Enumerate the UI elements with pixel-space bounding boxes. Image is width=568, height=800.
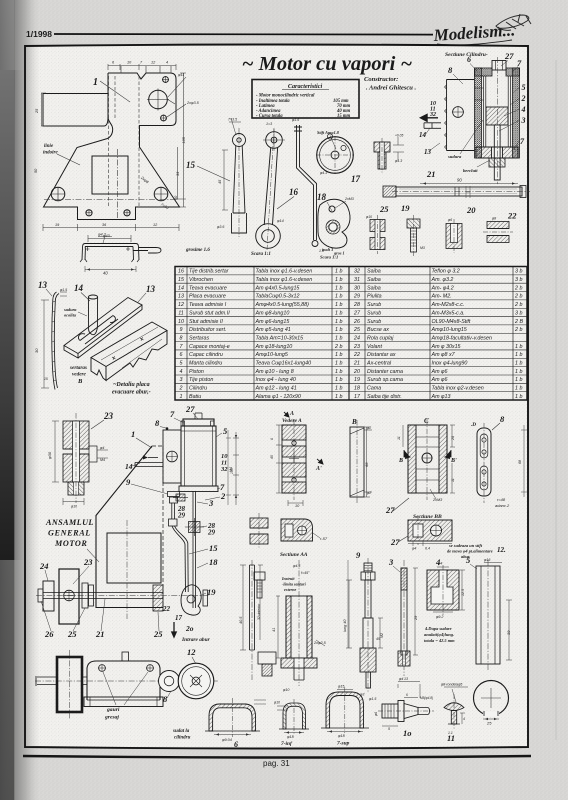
- svg-text:Distantar ax: Distantar ax: [367, 352, 396, 358]
- cap 27: [492, 61, 506, 71]
- svg-text:Tabla Am=10-30x15: Tabla Am=10-30x15: [256, 335, 304, 341]
- svg-text:13: 13: [38, 280, 48, 290]
- svg-text:29: 29: [177, 512, 186, 520]
- svg-text:+0.05: +0.05: [395, 134, 404, 138]
- valve handwheel part 12: [178, 663, 214, 699]
- svg-text:Am φ 30x15: Am φ 30x15: [431, 344, 461, 350]
- svg-text:25: 25: [153, 629, 163, 639]
- svg-text:1 b: 1 b: [335, 302, 342, 308]
- svg-text:Am φ6: Am φ6: [431, 369, 448, 375]
- middle column dim chain: [233, 432, 239, 505]
- svg-text:externe: externe: [284, 587, 296, 592]
- intrare abur arrow: [172, 622, 176, 637]
- svg-text:40: 40: [103, 271, 108, 276]
- svg-text:Am φ10 - lung 8: Am φ10 - lung 8: [255, 369, 294, 375]
- svg-text:adanc.2: adanc.2: [495, 503, 510, 508]
- svg-text:Amφ10-lung15: Amφ10-lung15: [431, 327, 467, 333]
- part 11 rivet: [444, 694, 464, 730]
- B section arrows on C: [404, 450, 410, 459]
- base flange: [84, 697, 163, 707]
- axle end bolt: [38, 589, 43, 602]
- svg-text:5: 5: [180, 360, 183, 366]
- svg-text:22: 22: [353, 352, 360, 358]
- svg-text:11: 11: [178, 310, 184, 316]
- svg-text:1 b: 1 b: [335, 285, 342, 291]
- bottom flange: [476, 147, 492, 158]
- isometric evacuation plate detail: [64, 295, 142, 358]
- svg-text:1 b: 1 b: [335, 377, 342, 383]
- svg-text:evacuare abur,-: evacuare abur,-: [112, 390, 151, 396]
- svg-text:8: 8: [180, 335, 183, 341]
- svg-text:totala = 42.5 mm: totala = 42.5 mm: [424, 638, 455, 643]
- svg-text:de teava φ4 pt.alimentare: de teava φ4 pt.alimentare: [447, 549, 493, 554]
- center line: [496, 57, 498, 184]
- svg-text:φ30: φ30: [47, 451, 52, 459]
- svg-text:23: 23: [83, 557, 93, 567]
- middle column screw: [254, 572, 265, 598]
- caracteristici spec box: [252, 80, 359, 120]
- svg-text:19: 19: [207, 587, 216, 597]
- svg-text:1 b: 1 b: [335, 360, 342, 366]
- svg-text:2xM3: 2xM3: [432, 498, 443, 502]
- svg-text:11: 11: [451, 478, 455, 482]
- svg-text:4.Dupa sudare: 4.Dupa sudare: [424, 626, 452, 631]
- svg-text:45: 45: [376, 637, 380, 641]
- svg-text:Sectiune BB: Sectiune BB: [413, 514, 442, 520]
- svg-text:1 b: 1 b: [335, 369, 342, 375]
- bottom rule: [23, 756, 531, 758]
- svg-text:11: 11: [397, 436, 401, 440]
- svg-text:15: 15: [178, 277, 184, 283]
- left scan shadow: [0, 0, 15, 800]
- svg-text:Vibrochen: Vibrochen: [189, 277, 213, 283]
- airplane doodle: [437, 40, 512, 45]
- svg-text:68: 68: [364, 462, 369, 467]
- bucse flanged bushing: [374, 138, 390, 173]
- parts table: [175, 267, 527, 401]
- svg-text:Tabla inox φ1.6-v.desen: Tabla inox φ1.6-v.desen: [256, 277, 313, 283]
- svg-text:Scara 1:1: Scara 1:1: [251, 252, 271, 257]
- steam chest front: [163, 430, 181, 483]
- svg-text:Batiu: Batiu: [189, 394, 201, 400]
- svg-text:19: 19: [401, 203, 410, 213]
- svg-text:Piulita: Piulita: [367, 294, 382, 300]
- svg-text:Inox φ4 - lung 40: Inox φ4 - lung 40: [256, 377, 296, 383]
- svg-text:sudat la: sudat la: [172, 729, 190, 734]
- svg-text:φ4: φ4: [438, 562, 442, 566]
- svg-text:φ2: φ2: [367, 426, 371, 430]
- svg-text:41: 41: [272, 628, 276, 632]
- svg-text:1: 1: [93, 77, 98, 88]
- svg-text:φ11: φ11: [178, 73, 184, 77]
- svg-text:3: 3: [180, 377, 183, 383]
- svg-text:18: 18: [209, 557, 218, 567]
- svg-text:15: 15: [44, 377, 48, 381]
- svg-text:29: 29: [353, 294, 360, 300]
- svg-text:26: 26: [353, 319, 360, 325]
- svg-text:21: 21: [426, 169, 436, 179]
- svg-text:cilindru: cilindru: [174, 736, 191, 741]
- svg-text:26: 26: [44, 629, 54, 639]
- svg-text:30: 30: [354, 285, 360, 291]
- svg-text:bercluit: bercluit: [463, 168, 478, 173]
- svg-text:1 b: 1 b: [335, 269, 342, 275]
- svg-text:19: 19: [354, 377, 360, 383]
- svg-text:1: 1: [131, 429, 135, 439]
- svg-text:~ Motor cu vapori ~: ~ Motor cu vapori ~: [242, 53, 413, 75]
- svg-text:C: C: [424, 417, 429, 425]
- svg-text:40.5: 40.5: [239, 616, 243, 624]
- svg-text:MOTOR: MOTOR: [54, 539, 87, 548]
- svg-text:φ8-rondelaφ5: φ8-rondelaφ5: [441, 683, 462, 687]
- cam blank circle: [474, 681, 509, 717]
- svg-text:105: 105: [182, 136, 186, 143]
- svg-text:29: 29: [207, 529, 216, 537]
- svg-text:32: 32: [220, 466, 228, 473]
- svg-text:φ4: φ4: [412, 547, 416, 551]
- svg-text:φ4: φ4: [100, 446, 104, 450]
- svg-text:φ4.3: φ4.3: [395, 159, 402, 163]
- svg-text:13: 13: [424, 148, 432, 156]
- svg-text:M4: M4: [100, 458, 105, 462]
- svg-text:32: 32: [354, 269, 360, 275]
- svg-text:10: 10: [178, 319, 184, 325]
- svg-text:lung 40: lung 40: [343, 619, 347, 632]
- right bearing block: [153, 585, 163, 611]
- svg-text:90: 90: [457, 178, 462, 183]
- svg-text:17: 17: [354, 394, 361, 400]
- inlet tube assembly: [135, 463, 163, 467]
- svg-text:32=interior: 32=interior: [257, 603, 261, 620]
- svg-text:vedere: vedere: [72, 372, 87, 378]
- svg-text:Stift Amφ1.8: Stift Amφ1.8: [317, 130, 340, 135]
- svg-text:se sudeaza un stift: se sudeaza un stift: [448, 543, 483, 548]
- svg-text:Stut admisie II: Stut admisie II: [189, 319, 223, 325]
- wheel part 17: [316, 134, 354, 174]
- svg-text:22: 22: [507, 211, 517, 221]
- svg-text:B: B: [351, 418, 357, 426]
- svg-text:2xφ3.5: 2xφ3.5: [186, 101, 200, 105]
- svg-text:Teava admisie I: Teava admisie I: [189, 302, 227, 308]
- svg-text:A: A: [289, 411, 294, 417]
- lower bolt cluster: [189, 522, 201, 533]
- svg-text:φ14: φ14: [277, 219, 284, 223]
- part 1 fold lines: [44, 66, 178, 219]
- svg-text:Am- φ4.2: Am- φ4.2: [431, 285, 454, 291]
- svg-text:3 b: 3 b: [515, 277, 522, 283]
- svg-text:1 b: 1 b: [335, 294, 342, 300]
- svg-text:3: 3: [208, 498, 214, 508]
- svg-text:Teava evacuare: Teava evacuare: [189, 285, 227, 291]
- svg-text:15: 15: [186, 160, 196, 170]
- svg-text:Caracteristici: Caracteristici: [288, 83, 323, 90]
- svg-text:1 b: 1 b: [515, 344, 522, 350]
- svg-text:Instruit: Instruit: [281, 576, 295, 581]
- svg-text:68: 68: [518, 460, 522, 464]
- svg-text:2: 2: [220, 491, 226, 501]
- svg-text:2 b: 2 b: [514, 285, 522, 291]
- svg-text:6: 6: [234, 740, 238, 749]
- svg-text:M3: M3: [420, 246, 425, 250]
- svg-text:9: 9: [180, 327, 183, 333]
- flywheel side (thick rim): [57, 657, 82, 712]
- svg-text:17: 17: [351, 174, 361, 184]
- svg-text:2 b: 2 b: [514, 327, 522, 333]
- svg-text:27: 27: [390, 537, 400, 547]
- svg-text:Rola cuplaj: Rola cuplaj: [367, 335, 394, 341]
- svg-text:- Motor monocilindric vertical: - Motor monocilindric vertical: [256, 94, 315, 99]
- svg-text:27: 27: [185, 404, 195, 414]
- washers right: [203, 590, 208, 606]
- svg-text:Am φ5-lung 41: Am φ5-lung 41: [255, 327, 291, 333]
- svg-text:Vedere A: Vedere A: [282, 418, 302, 424]
- sectiune AA drawing: [281, 519, 313, 541]
- upper bolt cluster: [176, 494, 185, 501]
- svg-text:gresaj: gresaj: [104, 715, 119, 721]
- svg-text:Tabla inox φ2-v.desen: Tabla inox φ2-v.desen: [432, 386, 484, 392]
- svg-text:M5(φ4.8): M5(φ4.8): [420, 696, 433, 700]
- svg-text:24: 24: [353, 335, 360, 341]
- right margin faint page edge: [555, 60, 557, 740]
- svg-text:φ1.5: φ1.5: [60, 288, 67, 292]
- svg-text:φ18: φ18: [338, 734, 346, 738]
- svg-text:2 b: 2 b: [334, 344, 342, 350]
- svg-text:φ6: φ6: [448, 218, 452, 222]
- svg-text:B': B': [450, 458, 457, 464]
- svg-text:14: 14: [125, 462, 133, 471]
- svg-text:20: 20: [451, 436, 455, 441]
- svg-text:3: 3: [521, 116, 526, 125]
- svg-text:6.4: 6.4: [425, 547, 430, 551]
- svg-text:φ15: φ15: [338, 685, 344, 689]
- svg-text:Capac cilindru: Capac cilindru: [189, 352, 223, 358]
- small wheel on valve shaft: [159, 671, 180, 692]
- svg-text:Teflon φ 3.2: Teflon φ 3.2: [432, 269, 460, 275]
- svg-text:ocolita: ocolita: [64, 313, 77, 318]
- svg-text:Am. φ3.2: Am. φ3.2: [431, 277, 454, 283]
- svg-text:Capace montaj-e: Capace montaj-e: [189, 344, 230, 350]
- svg-text:6: 6: [180, 352, 183, 358]
- svg-text:13: 13: [178, 294, 184, 300]
- svg-text:B: B: [77, 378, 83, 385]
- svg-text:Surub sp.cama: Surub sp.cama: [367, 377, 403, 383]
- conrod part 15: [232, 128, 247, 237]
- part 23 flywheel hub section detail: [63, 413, 97, 503]
- svg-text:anulati(φ4)lung.: anulati(φ4)lung.: [424, 632, 454, 637]
- knurled outer shell: [475, 68, 482, 158]
- crank disc: [43, 581, 54, 611]
- general assembly: cylinder cap: [36, 413, 218, 624]
- bent staple bracket: [80, 244, 161, 263]
- gland under cylinder: [168, 492, 180, 497]
- svg-text:r=48: r=48: [497, 497, 506, 502]
- svg-text:4: 4: [521, 105, 526, 114]
- cylinder section view: [445, 57, 520, 184]
- svg-text:φ10: φ10: [274, 701, 280, 705]
- svg-text:21: 21: [353, 360, 360, 366]
- svg-text:14: 14: [178, 285, 184, 291]
- svg-text:4: 4: [180, 369, 183, 375]
- svg-text:25: 25: [67, 629, 77, 639]
- cap 7-sup: [321, 687, 369, 733]
- svg-text:14: 14: [419, 131, 427, 139]
- svg-text:1 b: 1 b: [515, 377, 522, 383]
- svg-text:1 b: 1 b: [335, 310, 342, 316]
- svg-text:7-inf: 7-inf: [281, 741, 293, 747]
- svg-text:pag. 31: pag. 31: [263, 759, 290, 768]
- svg-text:B: B: [398, 458, 403, 464]
- A arrow top: [284, 412, 289, 417]
- svg-text:Am- M2.: Am- M2.: [431, 294, 452, 300]
- svg-text:sudura: sudura: [447, 154, 462, 159]
- svg-text:linie: linie: [44, 144, 54, 149]
- svg-text:1 b: 1 b: [335, 394, 342, 400]
- svg-text:ANSAMLUL: ANSAMLUL: [45, 518, 94, 527]
- svg-text:12.5: 12.5: [461, 589, 465, 596]
- middle column small part with hatch: [250, 513, 268, 549]
- svg-text:M2: M2: [380, 633, 384, 638]
- svg-text:25: 25: [353, 327, 360, 333]
- svg-text:15 mm: 15 mm: [337, 114, 351, 119]
- svg-text:Surub stut adm.II: Surub stut adm.II: [189, 310, 230, 316]
- svg-text:Teava Cuφ16x1-lung40: Teava Cuφ16x1-lung40: [256, 360, 312, 366]
- svg-text:φ18: φ18: [287, 735, 295, 739]
- svg-text:Am-M3x5-c.a.: Am-M3x5-c.a.: [431, 310, 465, 316]
- svg-text:Distanter cama: Distanter cama: [367, 369, 403, 375]
- svg-text:φ9.04: φ9.04: [222, 738, 232, 742]
- svg-text:2 B: 2 B: [514, 319, 523, 325]
- svg-text:sertaras: sertaras: [69, 365, 87, 371]
- svg-text:13: 13: [146, 284, 156, 294]
- svg-text:6: 6: [406, 693, 408, 697]
- svg-text:φ2: φ2: [367, 491, 371, 495]
- part 2 cylinder body section: [281, 560, 317, 686]
- svg-text:-limita santuri: -limita santuri: [282, 582, 307, 587]
- svg-text:1 b: 1 b: [335, 335, 342, 341]
- svg-text:.D: .D: [471, 422, 476, 428]
- square hole in part 1: [92, 156, 128, 194]
- part 1 dimension lines: [41, 64, 186, 242]
- cap 7-inf: [279, 699, 309, 734]
- big hole phi11: [149, 90, 168, 109]
- svg-text:5: 5: [522, 83, 526, 92]
- piston rod assembly: [172, 503, 175, 519]
- svg-text:25: 25: [379, 204, 389, 214]
- svg-text:Am φ8-lung10: Am φ8-lung10: [255, 310, 290, 316]
- svg-text:29: 29: [414, 615, 418, 621]
- svg-text:4: 4: [166, 61, 168, 65]
- svg-text:Piston: Piston: [189, 369, 204, 375]
- svg-text:25: 25: [35, 108, 39, 114]
- svg-text:φ4.3: φ4.3: [320, 171, 327, 175]
- svg-text:φ3.6: φ3.6: [217, 225, 224, 229]
- svg-text:φ10: φ10: [283, 688, 289, 692]
- header rule: [54, 33, 433, 36]
- svg-text:inalt 3: inalt 3: [322, 247, 333, 252]
- svg-text:2: 2: [521, 94, 526, 103]
- svg-text:φ1.5: φ1.5: [369, 697, 376, 701]
- svg-text:Distribuitor sert.: Distribuitor sert.: [189, 327, 226, 333]
- svg-text:grosime 1.6: grosime 1.6: [185, 248, 210, 253]
- axle spacers: [82, 583, 88, 608]
- svg-text:Saiba: Saiba: [367, 277, 381, 283]
- svg-text:Bucse ax: Bucse ax: [367, 327, 389, 333]
- svg-text:6: 6: [270, 438, 274, 440]
- part 1 batiu flat development: [43, 73, 180, 220]
- svg-text:12: 12: [178, 302, 184, 308]
- svg-text:6: 6: [467, 55, 471, 64]
- svg-text:Am φ8 x7: Am φ8 x7: [431, 352, 456, 358]
- svg-text:Tije distrib.sertar: Tije distrib.sertar: [189, 269, 229, 275]
- svg-text:2xM3: 2xM3: [344, 197, 354, 201]
- svg-text:23: 23: [103, 411, 114, 421]
- piston rod: [494, 125, 500, 180]
- svg-text:. Andrei Ghitescu .: . Andrei Ghitescu .: [366, 85, 417, 92]
- flywheel front view: [59, 569, 79, 624]
- svg-text:24: 24: [39, 561, 49, 571]
- svg-text:Am φ6: Am φ6: [431, 377, 448, 383]
- svg-text:2: 2: [179, 386, 183, 392]
- svg-text:Intrare abur: Intrare abur: [181, 637, 211, 643]
- svg-text:φ10: φ10: [71, 505, 77, 509]
- svg-text:3: 3: [388, 557, 394, 567]
- small holes 2x phi3.5: [163, 77, 169, 83]
- svg-text:1 b: 1 b: [515, 386, 522, 392]
- sectiune BB drawing: [408, 516, 452, 545]
- svg-text:4: 4: [463, 717, 465, 721]
- svg-text:25: 25: [486, 721, 492, 726]
- svg-text:Volant: Volant: [367, 344, 382, 350]
- svg-text:Surub: Surub: [367, 302, 381, 308]
- assembly bottom flange: [179, 486, 218, 492]
- svg-text:φ9.2: φ9.2: [436, 615, 443, 619]
- svg-text:f=45°: f=45°: [301, 571, 310, 575]
- main frame border: [25, 45, 528, 749]
- svg-text:39: 39: [506, 630, 511, 635]
- svg-text:Tije piston: Tije piston: [189, 377, 213, 383]
- svg-text:~Detaliu placa: ~Detaliu placa: [113, 382, 150, 388]
- svg-text:12.: 12.: [497, 546, 506, 554]
- piston: [486, 107, 508, 125]
- batiu side block: [87, 661, 160, 700]
- gland nut: [489, 158, 505, 167]
- svg-text:1 b: 1 b: [515, 394, 522, 400]
- svg-text:Amφ10-lung5: Amφ10-lung5: [255, 352, 288, 358]
- svg-text:Saiba: Saiba: [367, 269, 381, 275]
- svg-text:Inox φ4-lung90: Inox φ4-lung90: [432, 360, 468, 366]
- svg-text:27: 27: [385, 505, 395, 515]
- crank axle centerline: [36, 595, 210, 597]
- cam on axle: [181, 585, 201, 615]
- svg-text:φ16: φ16: [484, 558, 490, 562]
- svg-text:28: 28: [353, 302, 360, 308]
- svg-text:Scara 1:1: Scara 1:1: [320, 255, 338, 260]
- svg-text:18: 18: [354, 386, 360, 392]
- svg-text:2 b: 2 b: [514, 294, 522, 300]
- svg-text:Constructor:: Constructor:: [364, 76, 398, 83]
- svg-text:Tabla inox φ1.6-v.desen: Tabla inox φ1.6-v.desen: [256, 269, 313, 275]
- svg-text:indoire: indoire: [43, 151, 59, 156]
- svg-text:20: 20: [466, 205, 476, 215]
- svg-text:1 b: 1 b: [335, 352, 342, 358]
- svg-text:17: 17: [175, 614, 183, 622]
- svg-text:Amφ4x0.5-lung(55,88): Amφ4x0.5-lung(55,88): [255, 302, 310, 308]
- svg-text:11: 11: [447, 733, 455, 743]
- svg-text:18: 18: [317, 192, 327, 202]
- svg-text:Amφ18-facultativ-v.desen: Amφ18-facultativ-v.desen: [431, 335, 492, 341]
- part 10 union fitting: [378, 701, 434, 722]
- svg-text:13: 13: [404, 677, 408, 681]
